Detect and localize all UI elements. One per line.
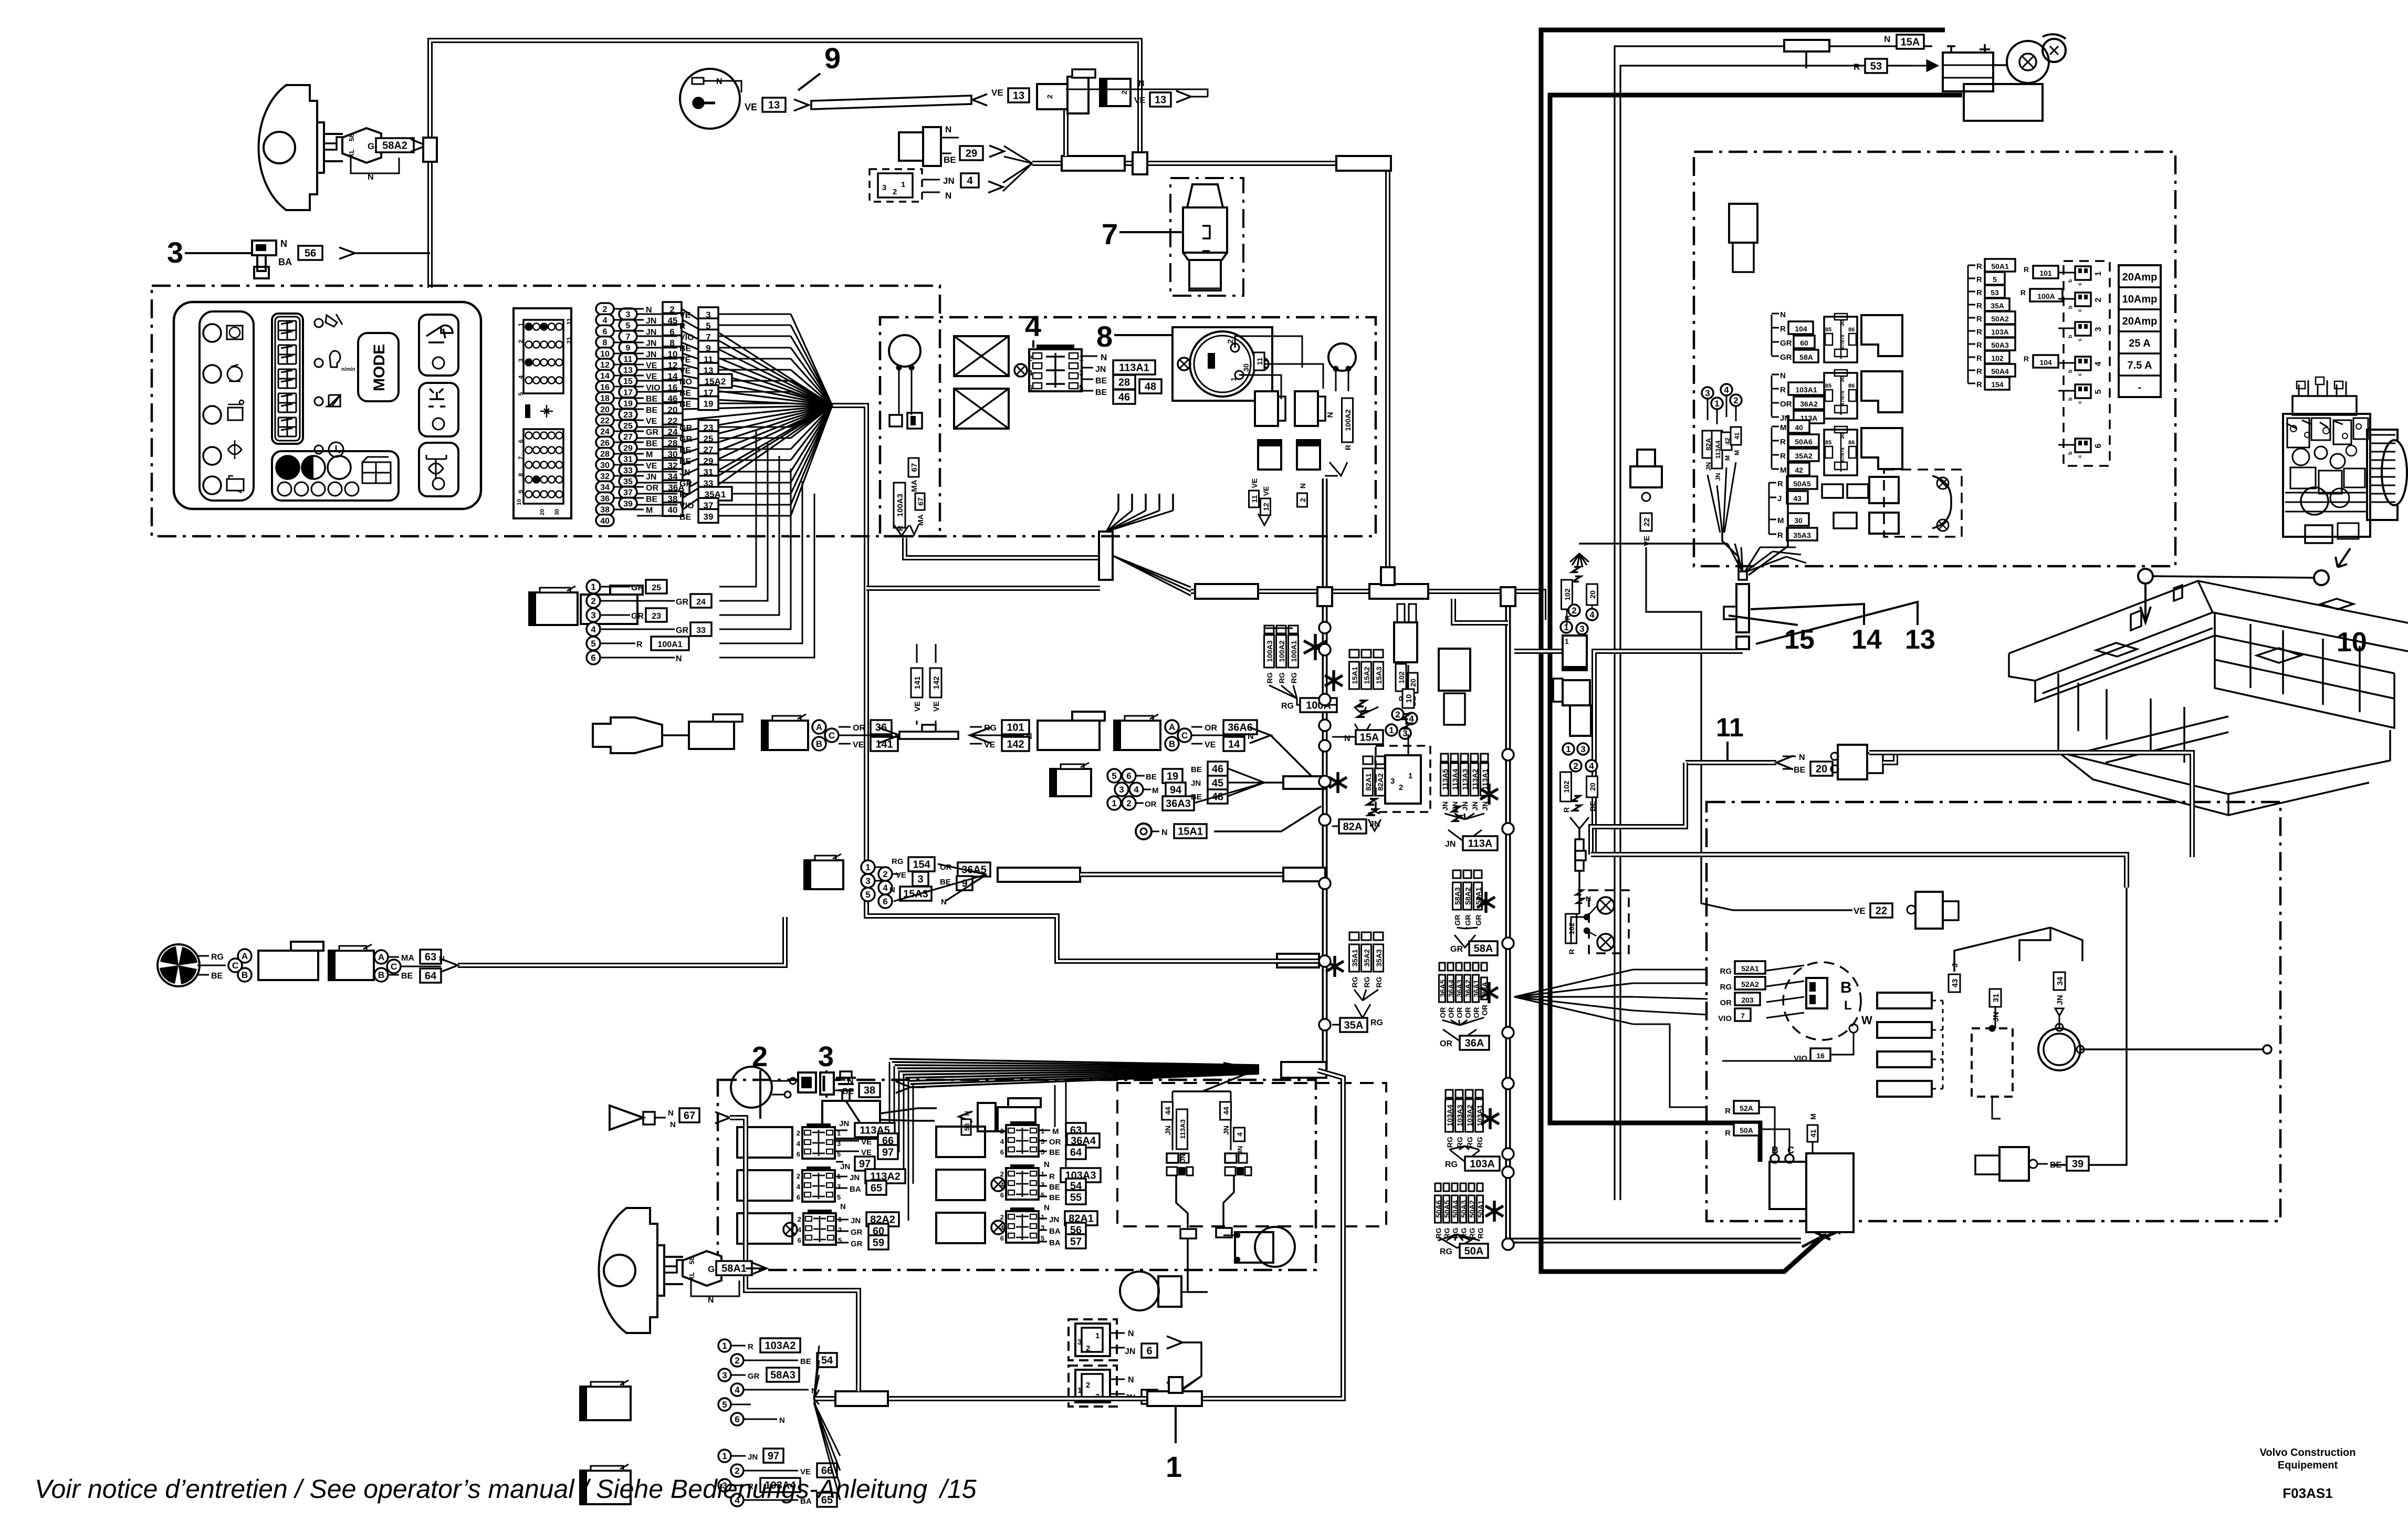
- svg-text:R: R: [1976, 328, 1982, 337]
- stack 113A on bus B: [1441, 754, 1448, 762]
- svg-text:7.5 A: 7.5 A: [2127, 360, 2152, 371]
- svg-text:11: 11: [1716, 713, 1744, 742]
- svg-text:BE: BE: [679, 457, 692, 466]
- svg-text:VE: VE: [861, 1138, 872, 1147]
- svg-text:GR: GR: [631, 612, 644, 621]
- relay row 3: [1771, 428, 1773, 468]
- svg-text:RG: RG: [1278, 672, 1286, 683]
- svg-text:1: 1: [1408, 772, 1412, 780]
- svg-text:JN: JN: [1714, 473, 1722, 481]
- svg-text:GR: GR: [1450, 945, 1463, 954]
- svg-text:50A4: 50A4: [1991, 367, 2009, 376]
- svg-text:1: 1: [1565, 637, 1569, 645]
- inline fuse holders x2680: [1394, 622, 1417, 662]
- svg-text:RG: RG: [1350, 976, 1359, 987]
- svg-text:104: 104: [2039, 358, 2052, 367]
- instrument panel dash-dot box: [152, 286, 940, 536]
- svg-text:100A2: 100A2: [1344, 409, 1352, 431]
- svg-text:3: 3: [865, 876, 870, 886]
- svg-text:3: 3: [1402, 728, 1407, 738]
- svg-text:20: 20: [539, 509, 546, 515]
- svg-text:58A2: 58A2: [382, 140, 407, 152]
- svg-text:JN: JN: [1191, 779, 1201, 788]
- fuse ratings table: [2119, 265, 2161, 397]
- svg-text:7: 7: [1102, 217, 1118, 251]
- svg-text:36A4: 36A4: [1447, 980, 1456, 997]
- bus A junction circles: [1319, 622, 1331, 633]
- svg-text:GR: GR: [631, 584, 644, 592]
- svg-text:A: A: [242, 951, 248, 961]
- svg-text:39: 39: [623, 499, 633, 508]
- svg-text:3: 3: [626, 310, 631, 319]
- svg-text:2: 2: [1399, 783, 1403, 792]
- ball sensor: [889, 335, 920, 367]
- svg-text:55: 55: [1070, 1192, 1082, 1204]
- cab fan motor: [158, 944, 200, 986]
- svg-text:36A1: 36A1: [1472, 980, 1481, 997]
- svg-text:c: c: [2077, 283, 2083, 286]
- svg-text:VE: VE: [913, 701, 922, 712]
- svg-text:43: 43: [1951, 979, 1960, 988]
- svg-text:R: R: [1976, 315, 1982, 324]
- compressor block B C: [1770, 1162, 1806, 1209]
- svg-text:JN: JN: [2056, 995, 2065, 1005]
- dashed pump sub-box: [1117, 1083, 1386, 1226]
- svg-text:RG: RG: [1363, 976, 1371, 987]
- stack 100A on bus A: [1264, 626, 1274, 633]
- bottom long wire: [814, 1070, 1343, 1399]
- svg-text:M: M: [1733, 450, 1741, 455]
- key/relay dash-dot box Q: [880, 317, 1376, 536]
- svg-text:100A2: 100A2: [1278, 640, 1286, 662]
- svg-text:BA: BA: [1049, 1227, 1061, 1236]
- svg-text:20: 20: [1409, 679, 1417, 687]
- svg-text:13: 13: [768, 100, 780, 111]
- svg-text:1: 1: [591, 582, 595, 592]
- svg-text:41: 41: [1733, 432, 1741, 440]
- svg-text:R: R: [1344, 445, 1352, 450]
- svg-text:4: 4: [1409, 714, 1414, 724]
- svg-text:BE: BE: [679, 446, 692, 455]
- svg-text:BE: BE: [1588, 801, 1597, 811]
- svg-text:N: N: [1138, 79, 1145, 88]
- resistor pack: [1877, 993, 1932, 1008]
- engine 10: [2283, 377, 2407, 543]
- svg-text:4: 4: [1025, 309, 1041, 342]
- glow device row JN4: [870, 169, 922, 202]
- blower switch: [1783, 962, 1861, 1040]
- svg-text:BE: BE: [679, 513, 692, 522]
- fuse panel connector top left: [1729, 204, 1757, 243]
- svg-text:28: 28: [600, 450, 610, 459]
- svg-text:Voir notice d’entretien / See: Voir notice d’entretien / See operator’s…: [35, 1474, 977, 1504]
- svg-text:113A3: 113A3: [1179, 1119, 1187, 1139]
- svg-text:24: 24: [600, 428, 610, 436]
- svg-text:GR: GR: [679, 424, 692, 433]
- ignition wires to labels: [1235, 336, 1302, 368]
- JN6 relay B: [1069, 1366, 1117, 1407]
- svg-text:2: 2: [1045, 95, 1054, 99]
- svg-text:N: N: [670, 1120, 676, 1129]
- fuel gauge cluster: [272, 451, 399, 501]
- svg-text:59: 59: [873, 1237, 884, 1249]
- AC heater dash-dot box: [1706, 802, 2280, 1221]
- svg-text:22: 22: [600, 416, 610, 425]
- svg-text:JN: JN: [1125, 1347, 1135, 1356]
- svg-text:C: C: [829, 731, 835, 741]
- svg-text:103A: 103A: [1470, 1159, 1495, 1170]
- svg-text:BE: BE: [1191, 793, 1202, 801]
- junction bar trunk left: [1062, 156, 1125, 171]
- svg-text:JN: JN: [1471, 801, 1479, 811]
- svg-text:39: 39: [2072, 1159, 2084, 1170]
- svg-text:4: 4: [1000, 1138, 1004, 1145]
- svg-text:2: 2: [517, 339, 525, 343]
- locator circles and label 10: [2138, 569, 2153, 584]
- svg-text:GR: GR: [646, 428, 658, 437]
- svg-text:50A4: 50A4: [1451, 1200, 1460, 1218]
- svg-text:MA: MA: [910, 480, 919, 492]
- svg-text:2: 2: [1028, 354, 1032, 363]
- svg-text:B: B: [1169, 739, 1175, 749]
- svg-text:6: 6: [591, 653, 595, 663]
- svg-text:BE: BE: [646, 439, 658, 448]
- svg-text:63: 63: [425, 952, 436, 963]
- svg-text:52A1: 52A1: [1741, 964, 1759, 973]
- svg-text:N: N: [1044, 1203, 1050, 1212]
- junction bar on bus A branch: [1283, 776, 1325, 789]
- stack 103A: [1446, 1090, 1453, 1098]
- svg-text:1: 1: [1166, 1450, 1182, 1483]
- svg-text:13: 13: [1155, 95, 1166, 106]
- svg-text:M: M: [1780, 423, 1787, 432]
- wire R53 to starter: [1620, 66, 1911, 1200]
- svg-text:N: N: [941, 898, 947, 907]
- thick battery cable 2: [1550, 95, 1962, 1162]
- svg-text:JN: JN: [646, 473, 656, 482]
- svg-text:OR: OR: [1472, 1007, 1481, 1018]
- svg-text:10Amp: 10Amp: [2122, 294, 2158, 305]
- sensor row 29: [899, 132, 923, 161]
- svg-text:OR: OR: [1439, 1007, 1447, 1018]
- svg-text:R: R: [1780, 438, 1786, 446]
- svg-text:50A6: 50A6: [1795, 438, 1813, 446]
- svg-text:102: 102: [1562, 780, 1571, 793]
- svg-text:R: R: [636, 640, 643, 649]
- svg-text:N: N: [676, 654, 682, 663]
- svg-text:12: 12: [1262, 503, 1270, 511]
- svg-text:BE: BE: [1095, 388, 1107, 397]
- svg-text:3: 3: [722, 1370, 727, 1380]
- branch bus B to connector: [1514, 649, 1563, 654]
- junction bar H1 right + T up: [1369, 584, 1428, 599]
- junction bar trunk mid: [1336, 156, 1391, 171]
- relay row L2: [737, 1170, 792, 1201]
- svg-text:2: 2: [1226, 339, 1235, 343]
- svg-text:6: 6: [1000, 1234, 1004, 1242]
- svg-text:19: 19: [1167, 771, 1178, 783]
- svg-text:35A3: 35A3: [1793, 531, 1811, 539]
- svg-text:4: 4: [967, 175, 973, 187]
- svg-text:VE: VE: [991, 88, 1003, 98]
- svg-text:N: N: [1780, 371, 1786, 380]
- svg-text:13: 13: [1905, 624, 1935, 655]
- svg-text:6: 6: [1146, 1346, 1152, 1357]
- svg-text:3: 3: [1390, 777, 1395, 786]
- svg-text:33: 33: [696, 626, 706, 635]
- compressor clutch: [2054, 972, 2065, 990]
- fuses: [2064, 261, 2110, 466]
- diag connector grids: [514, 308, 571, 518]
- svg-text:58A1: 58A1: [1474, 887, 1483, 905]
- svg-text:GR: GR: [1464, 915, 1472, 926]
- svg-text:52A: 52A: [1740, 1104, 1753, 1112]
- svg-text:N: N: [1128, 1329, 1134, 1338]
- fan from bus B to AC wires: [1514, 970, 1633, 997]
- svg-text:R: R: [1976, 262, 1982, 271]
- junction sleeve J1: [1099, 532, 1113, 580]
- wire key-switch drop: [1063, 89, 1069, 156]
- svg-text:3: 3: [1705, 388, 1710, 398]
- svg-text:6: 6: [603, 327, 608, 336]
- svg-text:8: 8: [603, 339, 608, 348]
- stack 82A: [1363, 756, 1373, 764]
- svg-text:3: 3: [837, 1183, 841, 1191]
- relay row 2: [1771, 376, 1773, 416]
- svg-text:11: 11: [1255, 357, 1264, 365]
- svg-text:10: 10: [600, 350, 610, 359]
- svg-text:2: 2: [797, 1172, 800, 1180]
- svg-text:A: A: [378, 952, 384, 962]
- svg-text:L: L: [1844, 998, 1852, 1013]
- svg-text:28: 28: [1118, 377, 1130, 389]
- svg-text:N: N: [1101, 352, 1107, 362]
- svg-text:20: 20: [1816, 764, 1827, 775]
- svg-text:N: N: [1248, 732, 1254, 741]
- relay row R1: [936, 1127, 985, 1157]
- svg-text:R: R: [1976, 275, 1982, 284]
- svg-text:BA: BA: [1049, 1238, 1061, 1247]
- svg-text:36A3: 36A3: [1166, 798, 1191, 810]
- junction bar bottom: [1281, 1062, 1326, 1078]
- svg-text:2: 2: [1733, 395, 1738, 405]
- svg-text:2: 2: [797, 1129, 800, 1137]
- right buttons: [419, 315, 458, 376]
- junction T of x2171: [1133, 152, 1147, 174]
- svg-text:58A1: 58A1: [721, 1263, 747, 1275]
- svg-text:BE: BE: [1049, 1183, 1060, 1192]
- svg-text:6: 6: [1028, 383, 1032, 392]
- flasher unit group: [1768, 483, 1770, 534]
- svg-text:35A1: 35A1: [1350, 949, 1359, 967]
- svg-text:GR: GR: [676, 598, 688, 607]
- svg-text:VE: VE: [646, 417, 657, 426]
- svg-text:4: 4: [1724, 385, 1729, 395]
- svg-text:VE: VE: [896, 871, 906, 880]
- svg-text:5: 5: [865, 890, 870, 900]
- svg-text:82A1: 82A1: [1364, 773, 1373, 791]
- svg-text:100A1: 100A1: [657, 640, 682, 649]
- svg-text:15: 15: [623, 377, 633, 386]
- svg-text:A: A: [1169, 722, 1175, 732]
- svg-text:RG: RG: [1440, 1247, 1452, 1256]
- svg-text:113A: 113A: [1468, 838, 1493, 850]
- svg-text:100A: 100A: [2037, 292, 2055, 300]
- svg-text:9: 9: [824, 41, 841, 75]
- inline connectors row9: [1037, 84, 1067, 109]
- svg-text:RG: RG: [1475, 1137, 1484, 1148]
- svg-text:19: 19: [704, 399, 714, 409]
- svg-text:60: 60: [1800, 339, 1808, 347]
- svg-text:1: 1: [722, 1341, 727, 1351]
- R102 BE20 splice top: [1570, 554, 1589, 562]
- instrument cluster outline: [174, 302, 481, 509]
- svg-text:103A1: 103A1: [1795, 386, 1817, 394]
- svg-text:BE: BE: [1191, 765, 1202, 774]
- svg-text:85: 85: [1825, 327, 1831, 333]
- connector pair right of bus B: [1563, 636, 1587, 670]
- svg-text:G: G: [708, 1264, 715, 1274]
- svg-text:9: 9: [626, 344, 631, 353]
- wire apex-to-J1 via x1650: [832, 405, 1321, 961]
- svg-text:52A2: 52A2: [1741, 980, 1759, 988]
- svg-text:36A2: 36A2: [1464, 980, 1472, 997]
- svg-text:2: 2: [1086, 1381, 1090, 1390]
- svg-text:5: 5: [591, 639, 595, 649]
- svg-text:5: 5: [1112, 771, 1116, 781]
- svg-text:3: 3: [882, 183, 886, 192]
- relay7 dash-dot box: [1170, 178, 1243, 296]
- battery: [1943, 53, 1993, 91]
- svg-text:86: 86: [1848, 440, 1855, 446]
- svg-text:M: M: [646, 506, 653, 515]
- svg-text:R: R: [1976, 380, 1982, 389]
- svg-text:F03AS1: F03AS1: [2283, 1485, 2332, 1501]
- svg-text:103A: 103A: [1991, 328, 2008, 336]
- svg-text:MA: MA: [401, 954, 414, 963]
- svg-text:R: R: [1976, 354, 1982, 363]
- switch symbol 3: [252, 241, 276, 255]
- svg-text:M: M: [646, 451, 653, 460]
- thick battery cable 1: [1541, 30, 1945, 1272]
- svg-text:1: 1: [1389, 725, 1394, 735]
- svg-text:6: 6: [735, 1414, 739, 1424]
- svg-text:54: 54: [821, 1355, 833, 1367]
- svg-text:57: 57: [1070, 1236, 1082, 1248]
- svg-text:30: 30: [554, 509, 560, 515]
- sleeve bottom wire to AC feed: [1594, 651, 1743, 855]
- junction T on x819: [423, 138, 437, 162]
- svg-text:N: N: [889, 886, 895, 894]
- svg-text:20: 20: [600, 405, 610, 414]
- svg-text:67: 67: [916, 497, 925, 506]
- svg-text:36A: 36A: [1465, 1038, 1484, 1049]
- svg-text:3: 3: [2094, 327, 2103, 331]
- svg-text:JN: JN: [840, 1162, 850, 1171]
- svg-text:b: b: [2068, 306, 2074, 309]
- svg-text:JN: JN: [851, 1216, 861, 1225]
- svg-text:50A: 50A: [1740, 1126, 1753, 1134]
- risers from relay labels to wedge: [889, 1062, 891, 1129]
- svg-text:36: 36: [600, 494, 610, 503]
- svg-text:RG: RG: [984, 724, 997, 733]
- svg-text:Equipement: Equipement: [2278, 1460, 2338, 1471]
- svg-text:46: 46: [1212, 764, 1223, 775]
- svg-text:113A5: 113A5: [1441, 769, 1449, 790]
- svg-text:BE: BE: [646, 395, 658, 404]
- svg-text:2: 2: [591, 596, 595, 606]
- svg-text:50A2: 50A2: [1468, 1200, 1477, 1218]
- svg-text:5: 5: [1041, 1191, 1044, 1199]
- svg-text:20: 20: [1588, 783, 1597, 791]
- fan-in wedge to junction bar: [889, 1059, 1259, 1065]
- svg-text:4: 4: [798, 1226, 802, 1234]
- svg-text:RG: RG: [1477, 1227, 1485, 1238]
- svg-text:4: 4: [603, 316, 608, 325]
- svg-text:BE: BE: [1095, 377, 1107, 386]
- svg-text:JN: JN: [1222, 1126, 1230, 1135]
- svg-text:N: N: [779, 1416, 785, 1425]
- key switch 9: [680, 69, 740, 129]
- svg-text:RG: RG: [1435, 1227, 1443, 1238]
- svg-text:85: 85: [1825, 440, 1831, 446]
- svg-text:58: 58: [688, 1257, 696, 1264]
- svg-text:141: 141: [913, 676, 922, 689]
- 40-pin connector fanout: [596, 303, 614, 315]
- svg-text:42: 42: [1795, 466, 1803, 474]
- warn icons: [227, 326, 243, 339]
- svg-text:50A3: 50A3: [1991, 341, 2009, 349]
- svg-text:c: c: [2077, 338, 2083, 341]
- svg-text:30: 30: [1242, 363, 1250, 372]
- svg-text:R: R: [1780, 452, 1786, 461]
- svg-text:58A: 58A: [1474, 943, 1493, 955]
- svg-text:VE: VE: [679, 311, 691, 320]
- svg-text:15A1: 15A1: [1178, 826, 1203, 838]
- svg-text:c: c: [2077, 373, 2083, 376]
- relay row R2: [936, 1170, 985, 1200]
- T bar on N15A line: [1784, 40, 1829, 51]
- diagnostic plug + GR labels below panel: [529, 592, 578, 625]
- svg-text:35A: 35A: [1344, 1020, 1364, 1032]
- svg-text:10: 10: [2337, 627, 2367, 658]
- svg-text:R: R: [1780, 386, 1786, 394]
- svg-text:16: 16: [1816, 1051, 1825, 1060]
- svg-text:3: 3: [818, 1041, 834, 1072]
- svg-text:N: N: [1161, 828, 1168, 837]
- svg-text:97: 97: [859, 1159, 871, 1170]
- svg-text:29: 29: [623, 444, 633, 453]
- svg-text:45: 45: [1212, 778, 1223, 789]
- chassis frame sketch: [2009, 581, 2408, 815]
- svg-text:b: b: [2068, 452, 2074, 455]
- svg-text:BA: BA: [278, 257, 292, 267]
- svg-text:OR: OR: [646, 484, 658, 493]
- svg-text:J: J: [1777, 494, 1782, 503]
- svg-text:2: 2: [893, 188, 897, 196]
- svg-text:R: R: [679, 322, 686, 331]
- svg-text:VE: VE: [984, 741, 996, 749]
- svg-text:14: 14: [1228, 739, 1240, 751]
- svg-text:RG: RG: [1446, 1137, 1454, 1148]
- svg-text:OR: OR: [853, 724, 865, 733]
- svg-text:N: N: [1299, 483, 1307, 488]
- svg-text:GR: GR: [748, 1372, 760, 1381]
- svg-text:3: 3: [1580, 744, 1585, 754]
- svg-text:36A3: 36A3: [1456, 980, 1464, 997]
- svg-text:R: R: [2020, 288, 2026, 297]
- svg-text:OR: OR: [1440, 1039, 1452, 1048]
